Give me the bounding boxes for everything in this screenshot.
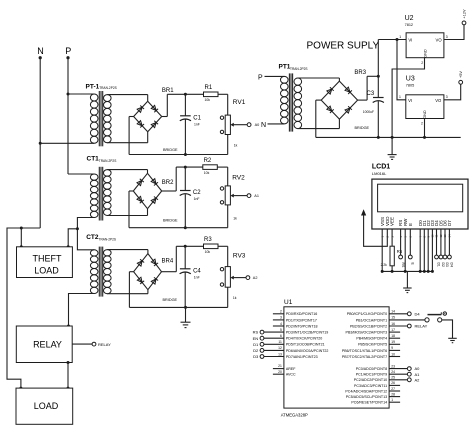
svg-text:14: 14 [391,310,395,314]
svg-text:RS: RS [253,330,259,335]
svg-text:15: 15 [391,316,395,320]
node U3 GND junction [423,136,426,139]
svg-text:CT1: CT1 [87,156,100,163]
svg-text:RELAY: RELAY [415,324,428,329]
svg-text:BRIDGE: BRIDGE [355,126,370,130]
display LCD1 (LM016L) [372,163,468,229]
wire RV3 bottom [227,287,229,307]
svg-text:D4: D4 [415,311,421,316]
svg-text:BRIDGE: BRIDGE [163,298,178,302]
svg-text:BR2: BR2 [162,180,174,186]
block RELAY [16,326,72,363]
svg-text:PC6/RESET/PCINT14: PC6/RESET/PCINT14 [351,401,387,405]
svg-text:VI: VI [408,98,412,103]
svg-text:+12V: +12V [463,9,467,18]
svg-text:RV1: RV1 [233,99,246,106]
ground stage3 [185,307,187,322]
transformer CT1 (TRAN-2P2S) [68,156,148,229]
transformer CT2 (TRAN-2P2S) [69,229,148,326]
node theft box right [67,245,70,248]
svg-text:2: 2 [280,310,282,314]
svg-text:PB1/OC1A/PCINT1: PB1/OC1A/PCINT1 [356,318,387,322]
svg-text:7812: 7812 [405,23,413,27]
svg-text:1nF: 1nF [194,197,200,201]
svg-text:EN: EN [253,336,259,341]
wire stage3 DC- rail [129,306,227,308]
potentiometer RV2 (1k) [220,174,251,220]
svg-text:LOAD: LOAD [34,401,59,411]
terminal +5V [459,71,463,85]
svg-text:BR1: BR1 [162,88,174,94]
svg-text:PD5/T1/OC0B/PCINT21: PD5/T1/OC0B/PCINT21 [286,343,325,347]
svg-text:PD4/T0/XCK/PCINT20: PD4/T0/XCK/PCINT20 [286,337,322,341]
svg-text:PB2/SS/OC1B/PCINT2: PB2/SS/OC1B/PCINT2 [350,324,387,328]
potentiometer RV1 (1k) [220,99,251,147]
svg-text:20: 20 [278,370,282,374]
svg-text:RS: RS [401,263,405,268]
resistor R1 (10k) [204,85,219,102]
svg-text:7805: 7805 [406,84,414,88]
svg-text:24: 24 [391,370,395,374]
svg-text:TRAN-2P2S: TRAN-2P2S [99,159,117,163]
wire LCD RW to bus [404,229,406,271]
svg-text:TRAN-2P2S: TRAN-2P2S [290,67,308,71]
svg-text:ATMEGA328P: ATMEGA328P [281,412,308,417]
wire stage1 DC+ rail [167,93,203,95]
svg-text:C2: C2 [193,190,201,196]
wire LCD VSS to bus [381,229,383,271]
svg-text:3: 3 [446,35,448,39]
potentiometer RV3 (1k) [220,253,250,300]
bridge rectifier BR2 [129,167,178,228]
svg-text:U1: U1 [284,299,293,306]
svg-text:R1: R1 [205,85,213,91]
svg-text:A0: A0 [415,366,421,371]
svg-text:PC3/ADC3/PCINT11: PC3/ADC3/PCINT11 [354,384,387,388]
svg-text:THEFT: THEFT [33,254,62,264]
wire VI to U3 [397,40,406,100]
svg-text:AREF: AREF [286,367,296,371]
svg-text:PB4/MISO/PCINT4: PB4/MISO/PCINT4 [356,337,387,341]
pushbutton reset [425,312,447,322]
block THEFT LOAD [17,247,73,278]
svg-text:BR3: BR3 [354,70,366,76]
node relay box top [67,325,70,328]
wire U2 GND [392,58,424,138]
svg-text:1k: 1k [233,296,237,300]
svg-text:28: 28 [391,392,395,396]
svg-text:LM016L: LM016L [372,171,387,176]
wire button to ground [442,320,453,338]
terminal D4 [407,311,420,316]
terminals D1-D4 (LCD data) [435,229,454,267]
terminal E [408,229,414,266]
svg-text:D7: D7 [447,220,452,226]
wire CT junction to theft box [68,229,77,247]
node P terminal [66,56,69,59]
bridge rectifier BR4 [129,246,177,307]
bridge rectifier BR1 [129,88,178,154]
svg-text:PB7/TOSC2/XTAL2/PCINT7: PB7/TOSC2/XTAL2/PCINT7 [342,355,387,359]
terminals A0 A1 A2 [407,366,420,382]
node U2 GND junction [391,136,394,139]
svg-text:4: 4 [280,322,282,326]
regulator U3 (7805) [399,76,448,126]
LCD pin labels [380,216,452,238]
node relay box bottom [67,361,70,364]
svg-text:VO: VO [436,38,443,43]
wire U3 output [444,84,461,100]
svg-text:VI: VI [408,38,412,43]
svg-text:13: 13 [278,352,282,356]
svg-text:PD7/AIN1/PCINT23: PD7/AIN1/PCINT23 [286,355,318,359]
svg-text:PC0/ADC0/PCINT8: PC0/ADC0/PCINT8 [356,367,387,371]
wire LCD VEE [391,229,393,246]
wire N to theft-load rail [7,228,40,388]
node N terminal [39,56,42,59]
node C1 top junction [184,93,187,96]
svg-text:TRAN-2P2S: TRAN-2P2S [99,238,117,242]
svg-text:R3: R3 [204,237,212,243]
node C3 bottom junction [377,136,380,139]
svg-text:10k: 10k [205,250,211,254]
wire theft rail drop [20,228,22,247]
svg-text:PD3/INT1/OC2B/PCINT19: PD3/INT1/OC2B/PCINT19 [286,331,328,335]
svg-text:C4: C4 [193,269,201,275]
svg-text:2: 2 [421,122,423,126]
wire PS ground rail [316,136,461,138]
wire U3 GND [424,119,426,138]
node theft rail junction [20,227,23,230]
svg-text:PB0/ICP1/CLKO/PCINT0: PB0/ICP1/CLKO/PCINT0 [347,312,387,316]
node CT1-CT2 junction [76,227,79,230]
svg-text:R2: R2 [204,158,212,164]
power arrow VDD +5V [361,209,387,246]
svg-text:1nF: 1nF [194,123,200,127]
resistor R2 (10k) [203,158,218,175]
svg-text:18: 18 [391,334,395,338]
svg-text:PD6/AIN0/OC0A/PCINT22: PD6/AIN0/OC0A/PCINT22 [286,349,329,353]
capacitor C3 (1000uF) [363,76,384,137]
svg-text:R6: R6 [397,249,403,254]
wire stage2 DC+ rail [176,166,203,168]
wire P vertical [67,58,69,174]
svg-text:D3: D3 [445,263,449,267]
svg-text:23: 23 [391,364,395,368]
svg-text:CT2: CT2 [86,234,99,241]
svg-text:POWER SUPLY: POWER SUPLY [307,41,380,52]
svg-text:10k: 10k [204,171,210,175]
node P-PT1 junction [67,93,70,96]
svg-text:A0: A0 [255,123,260,127]
wire C3 up to regulators [377,40,379,77]
node C4 bottom junction [184,306,187,309]
terminal +12V [462,9,466,25]
svg-text:+5V: +5V [459,71,463,78]
capacitor C2 (1nF) [180,167,202,228]
svg-text:D3: D3 [253,354,259,359]
svg-text:P: P [258,75,263,82]
svg-text:16: 16 [391,322,395,326]
svg-text:10: 10 [391,352,395,356]
resistor R3 (10k) [204,237,219,254]
resistor R6 (2.2k) [381,246,403,271]
svg-text:RELAY: RELAY [33,340,62,350]
ground LCD bus [406,271,408,288]
microcontroller U1 (ATMEGA328P) [281,299,389,417]
svg-text:PT-1: PT-1 [86,84,100,91]
svg-text:1: 1 [391,398,393,402]
transformer PT-1 (TRAN-2P2S) [40,84,148,147]
svg-text:PD0/RXD/PCINT16: PD0/RXD/PCINT16 [286,312,317,316]
svg-text:PD1/TXD/PCINT17: PD1/TXD/PCINT17 [286,318,317,322]
regulator U2 (7812) [399,15,448,65]
svg-text:3: 3 [446,95,448,99]
U1 left pin rows [264,310,329,377]
wire U2 output [444,25,464,40]
svg-text:LCD1: LCD1 [372,163,390,170]
svg-text:PD2/INT0/PCINT18: PD2/INT0/PCINT18 [286,324,318,328]
svg-text:GND: GND [423,49,427,58]
terminals RS EN D1 D2 D3 [253,330,264,359]
svg-text:P: P [65,46,71,56]
wire R3 to RV3 [218,245,228,247]
svg-text:U3: U3 [406,76,415,83]
node theft box left [20,245,23,248]
svg-text:D1: D1 [253,342,259,347]
U1 right pin rows [342,310,425,405]
svg-text:PB5/SCK/PCINT5: PB5/SCK/PCINT5 [358,343,387,347]
svg-text:TRAN-2P2S: TRAN-2P2S [99,86,117,90]
capacitor C1 (1nF) [180,94,202,154]
svg-text:PT1: PT1 [279,64,291,71]
ground button [452,337,454,339]
svg-text:2.2k: 2.2k [381,263,388,267]
svg-text:PB3/MOSI/OC2A/PCINT3: PB3/MOSI/OC2A/PCINT3 [346,331,388,335]
svg-text:RV2: RV2 [232,174,245,181]
wire N vertical [39,58,41,228]
svg-text:A2: A2 [253,276,258,280]
svg-text:N: N [37,46,44,56]
terminal RELAY coil [72,342,111,347]
svg-text:2: 2 [421,61,423,65]
terminal RS [399,229,405,268]
svg-text:1: 1 [399,35,401,39]
svg-text:BRIDGE: BRIDGE [163,148,178,152]
svg-text:1nF: 1nF [194,276,200,280]
svg-text:D1: D1 [437,263,441,267]
svg-text:D2: D2 [441,263,445,267]
svg-text:AVCC: AVCC [286,373,296,377]
svg-text:C1: C1 [193,116,201,122]
svg-text:A1: A1 [415,372,421,377]
node bus junctions [391,270,394,273]
svg-text:PC5/ADC5/SCL/PCINT13: PC5/ADC5/SCL/PCINT13 [346,395,387,399]
wire relay to load [67,363,69,389]
block LOAD [16,388,73,424]
wire stage3 DC+ rail [176,245,203,247]
svg-text:RELAY: RELAY [98,342,111,347]
wire R2 to RV2 [217,166,227,168]
svg-text:PC4/ADC4/SDA/PCINT12: PC4/ADC4/SDA/PCINT12 [345,389,387,393]
svg-text:D4: D4 [450,263,454,267]
svg-text:PC2/ADC2/PCINT10: PC2/ADC2/PCINT10 [354,378,387,382]
svg-text:N: N [261,122,266,129]
svg-text:PC1/ADC1/PCINT9: PC1/ADC1/PCINT9 [356,373,387,377]
wire stage2 DC- rail [129,227,228,229]
node load box left [19,387,22,390]
svg-text:E: E [408,223,413,226]
node load box right [67,387,70,390]
node N-PT1 junction [39,142,42,145]
svg-text:D2: D2 [253,348,259,353]
node C2 top junction [184,166,187,169]
wire RV1 bottom [227,135,229,155]
svg-text:PB6/TOSC1/XTAL1/PCINT6: PB6/TOSC1/XTAL1/PCINT6 [342,349,387,353]
node C2 bottom junction [184,226,187,229]
svg-text:25: 25 [391,376,395,380]
node C3 top junction [377,75,380,78]
node C1 bottom junction [184,153,187,156]
svg-text:27: 27 [391,387,395,391]
svg-text:26: 26 [391,381,395,385]
svg-text:1000uF: 1000uF [363,110,374,114]
svg-text:10k: 10k [205,98,211,102]
svg-text:9: 9 [391,346,393,350]
svg-text:21: 21 [278,364,282,368]
svg-text:GND: GND [423,110,427,119]
svg-text:19: 19 [391,340,395,344]
svg-text:3: 3 [280,316,282,320]
node U2-U3 VI junction [396,38,399,41]
ground power supply [391,137,393,154]
wire LCD ground bus [382,270,433,272]
svg-text:12: 12 [278,346,282,350]
svg-text:C3: C3 [367,91,375,97]
svg-text:BRIDGE: BRIDGE [163,219,178,223]
wire RV2 bottom [227,205,229,228]
svg-text:5: 5 [280,328,282,332]
svg-text:RV3: RV3 [233,253,246,260]
wire BR3+ to C3 [367,75,378,77]
wire stage1 DC- rail [129,154,228,156]
svg-text:VEE: VEE [390,217,395,226]
wire LCD D0-D3 to bus [419,229,421,271]
svg-text:VO: VO [435,98,442,103]
svg-text:A1: A1 [254,194,259,198]
svg-text:1k: 1k [233,217,237,221]
transformer PT1 (TRAN-2P2S) [258,64,339,132]
svg-text:BR4: BR4 [162,259,174,265]
svg-text:6: 6 [280,334,282,338]
svg-text:17: 17 [391,328,395,332]
svg-text:1k: 1k [234,144,238,148]
svg-text:LOAD: LOAD [34,266,59,276]
capacitor C4 (1nF) [180,246,202,307]
svg-text:1: 1 [399,95,401,99]
terminal RELAY out [407,324,427,329]
svg-text:A2: A2 [415,377,421,382]
svg-text:U2: U2 [405,15,414,22]
svg-text:11: 11 [278,340,282,344]
bridge rectifier BR3 [316,70,370,138]
node C4 top junction [184,245,187,248]
wire R1 to RV1 [218,93,228,95]
